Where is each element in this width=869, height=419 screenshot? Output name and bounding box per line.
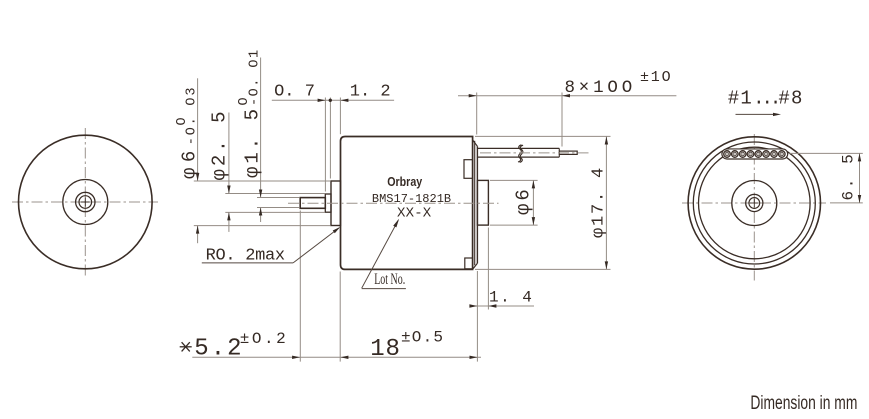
- arrow down: [227, 186, 230, 194]
- svg-text:Orbray: Orbray: [387, 174, 423, 189]
- svg-text:18: 18: [370, 336, 400, 363]
- ext line body bottom: [475, 268, 611, 270]
- stripped wire tip: [559, 151, 577, 154]
- svg-text:O: O: [175, 117, 190, 125]
- v centerline: [84, 128, 86, 277]
- arrow right at 325.8: [318, 99, 326, 102]
- dim phi2.5 (left, vertical): [208, 108, 325, 231]
- svg-text:#1...#8: #1...#8: [728, 88, 804, 110]
- shaft phi1.5: [300, 198, 325, 209]
- R0.2max leader: [202, 227, 340, 266]
- ext line collar top: [225, 193, 325, 195]
- svg-text:±1O: ±1O: [640, 69, 672, 86]
- pin 3: [739, 151, 746, 158]
- dim line seg2: [228, 212, 230, 232]
- pin 1: [724, 151, 731, 158]
- ext line collar-left: [324, 98, 326, 192]
- svg-text:5.2: 5.2: [194, 336, 243, 363]
- separator dot: [329, 99, 332, 102]
- hub circle: [732, 181, 777, 226]
- outer circle: [688, 137, 820, 269]
- motor axis centerline: [288, 202, 499, 204]
- svg-text:±O.5: ±O.5: [401, 329, 444, 347]
- dim phi6 (right boss): [490, 180, 538, 225]
- leader arrowhead: [393, 219, 399, 228]
- left bearing boss phi6: [331, 181, 341, 226]
- dim 5.2 and 18 (bottom lengths): [180, 211, 481, 364]
- ext line shaft bottom: [257, 207, 300, 209]
- #1...#8 label: [728, 88, 804, 117]
- svg-text:1. 4: 1. 4: [489, 289, 533, 307]
- arrow up: [227, 212, 230, 220]
- svg-text:φ2. 5: φ2. 5: [208, 108, 230, 180]
- shaft hole outer: [746, 194, 763, 211]
- leader line: [362, 220, 399, 288]
- arrow down: [605, 261, 608, 269]
- svg-text:φ17. 4: φ17. 4: [590, 166, 609, 238]
- dim line seg2: [197, 226, 199, 244]
- dim line: [272, 99, 394, 101]
- underline: [362, 288, 406, 290]
- arrow up at 225.6: [196, 226, 199, 234]
- pin 7: [771, 151, 778, 158]
- leader arrowhead: [333, 227, 340, 233]
- svg-text:Dimension in mm: Dimension in mm: [750, 393, 857, 414]
- collar phi2.5: [325, 194, 331, 212]
- ext line wire: [561, 93, 563, 147]
- top chamfer: [473, 140, 478, 147]
- ext line shaft tip: [299, 211, 301, 362]
- ext line boss right: [487, 228, 489, 310]
- wire break squiggle: [518, 145, 522, 162]
- kome mark: [180, 342, 192, 351]
- ext line boss bottom: [194, 225, 331, 227]
- v centerline: [753, 134, 755, 281]
- top crimp tab: [464, 160, 473, 179]
- circle 3: [699, 147, 811, 259]
- dim 1.4 (boss protrusion): [469, 228, 534, 362]
- arrow left at 562: [562, 94, 570, 97]
- wire bottom line: [477, 156, 559, 158]
- ext line boss top: [194, 180, 331, 182]
- outer circle: [19, 135, 153, 269]
- arrow right at 477.4: [469, 304, 477, 307]
- arrow up: [532, 180, 535, 188]
- phi1.5 circle: [79, 196, 92, 209]
- svg-text:Lot No.: Lot No.: [374, 271, 405, 288]
- dim line: [470, 305, 535, 307]
- pin 4: [747, 151, 754, 158]
- pin 2: [732, 151, 739, 158]
- ext line boss-left: [329, 98, 331, 179]
- center cross: [81, 201, 90, 203]
- dim 6.5 (pin row offset): [790, 152, 863, 203]
- arrow down at 181: [196, 173, 199, 181]
- h centerline: [682, 202, 826, 204]
- ext line pin row: [790, 152, 863, 154]
- center cross: [750, 202, 759, 204]
- svg-text:8×1OO: 8×1OO: [565, 78, 637, 98]
- svg-text:XX-X: XX-X: [397, 206, 432, 222]
- ext line boss bottom: [490, 224, 538, 226]
- shaft hole inner: [749, 198, 760, 209]
- circle 2: [693, 142, 815, 264]
- arrow up: [605, 137, 608, 145]
- dim line seg1: [228, 113, 230, 194]
- ext line shaft top: [257, 197, 300, 199]
- arrow left at 340.2: [340, 99, 348, 102]
- dim 8x100 (wire length): [458, 69, 676, 146]
- arrow right at 476.7: [469, 94, 477, 97]
- wire end: [558, 148, 560, 151]
- arrow line: [736, 113, 776, 115]
- Lot No. leader: [362, 219, 406, 289]
- pins #1-#8: [724, 151, 785, 158]
- pin 5: [755, 151, 762, 158]
- ext line body top: [475, 135, 611, 137]
- pin 8: [779, 151, 786, 158]
- dim line: [859, 153, 861, 203]
- bottom crimp tab: [465, 258, 473, 269]
- dim phi1.5 lower tol (left, vertical): [237, 48, 300, 222]
- dim phi17.4 (body diameter): [475, 136, 611, 269]
- dim line seg1: [260, 58, 262, 198]
- dim line seg1: [197, 78, 199, 181]
- ext line body left: [339, 272, 341, 362]
- wire top line: [477, 147, 559, 149]
- connector stadium: [722, 149, 788, 159]
- h centerline: [12, 201, 158, 203]
- leader line: [293, 228, 339, 263]
- svg-text:BMS17-1821B: BMS17-1821B: [372, 192, 451, 206]
- svg-text:±O.2: ±O.2: [240, 330, 288, 348]
- motor can body: [341, 137, 473, 270]
- arrow left at 340.2: [340, 356, 348, 359]
- pin 6: [763, 151, 770, 158]
- end cap face: [476, 146, 478, 263]
- dim phi6 upper tol (left, vertical): [175, 78, 331, 243]
- arrow up: [858, 153, 861, 161]
- bottom chamfer: [473, 263, 477, 268]
- dim line: [605, 137, 607, 270]
- phi6 circle: [63, 180, 108, 225]
- arrow down: [858, 195, 861, 203]
- arrow right at 300.1: [292, 356, 300, 359]
- ext line collar bottom: [225, 211, 325, 213]
- dim line: [458, 95, 676, 97]
- dim 0.7 / 1.2 (top of shaft area): [272, 82, 394, 191]
- right boss phi6: [477, 180, 488, 225]
- arrow down: [259, 190, 262, 198]
- arrow down: [532, 217, 535, 225]
- wire centerline: [480, 152, 589, 154]
- arrow right at 477.5: [470, 356, 478, 359]
- svg-text:φ6: φ6: [513, 186, 535, 215]
- svg-text:6. 5: 6. 5: [840, 152, 858, 201]
- arrowhead: [773, 113, 781, 116]
- ext line boss top: [490, 179, 538, 181]
- dim line: [192, 356, 481, 358]
- svg-text:O. 7: O. 7: [274, 82, 315, 101]
- phi2.5 circle: [76, 192, 95, 211]
- svg-text:1. 2: 1. 2: [350, 82, 391, 101]
- underline: [202, 262, 293, 264]
- dim line: [532, 180, 534, 225]
- dim line seg2: [260, 208, 262, 223]
- ext line body-left: [339, 98, 341, 135]
- ext line center: [830, 202, 863, 204]
- arrow up: [259, 208, 262, 216]
- arrow left at 488.4: [488, 304, 496, 307]
- end cap inner line: [474, 141, 476, 265]
- ext line cap face: [476, 271, 478, 362]
- ext line body-right: [476, 93, 478, 135]
- svg-text:O: O: [237, 97, 252, 105]
